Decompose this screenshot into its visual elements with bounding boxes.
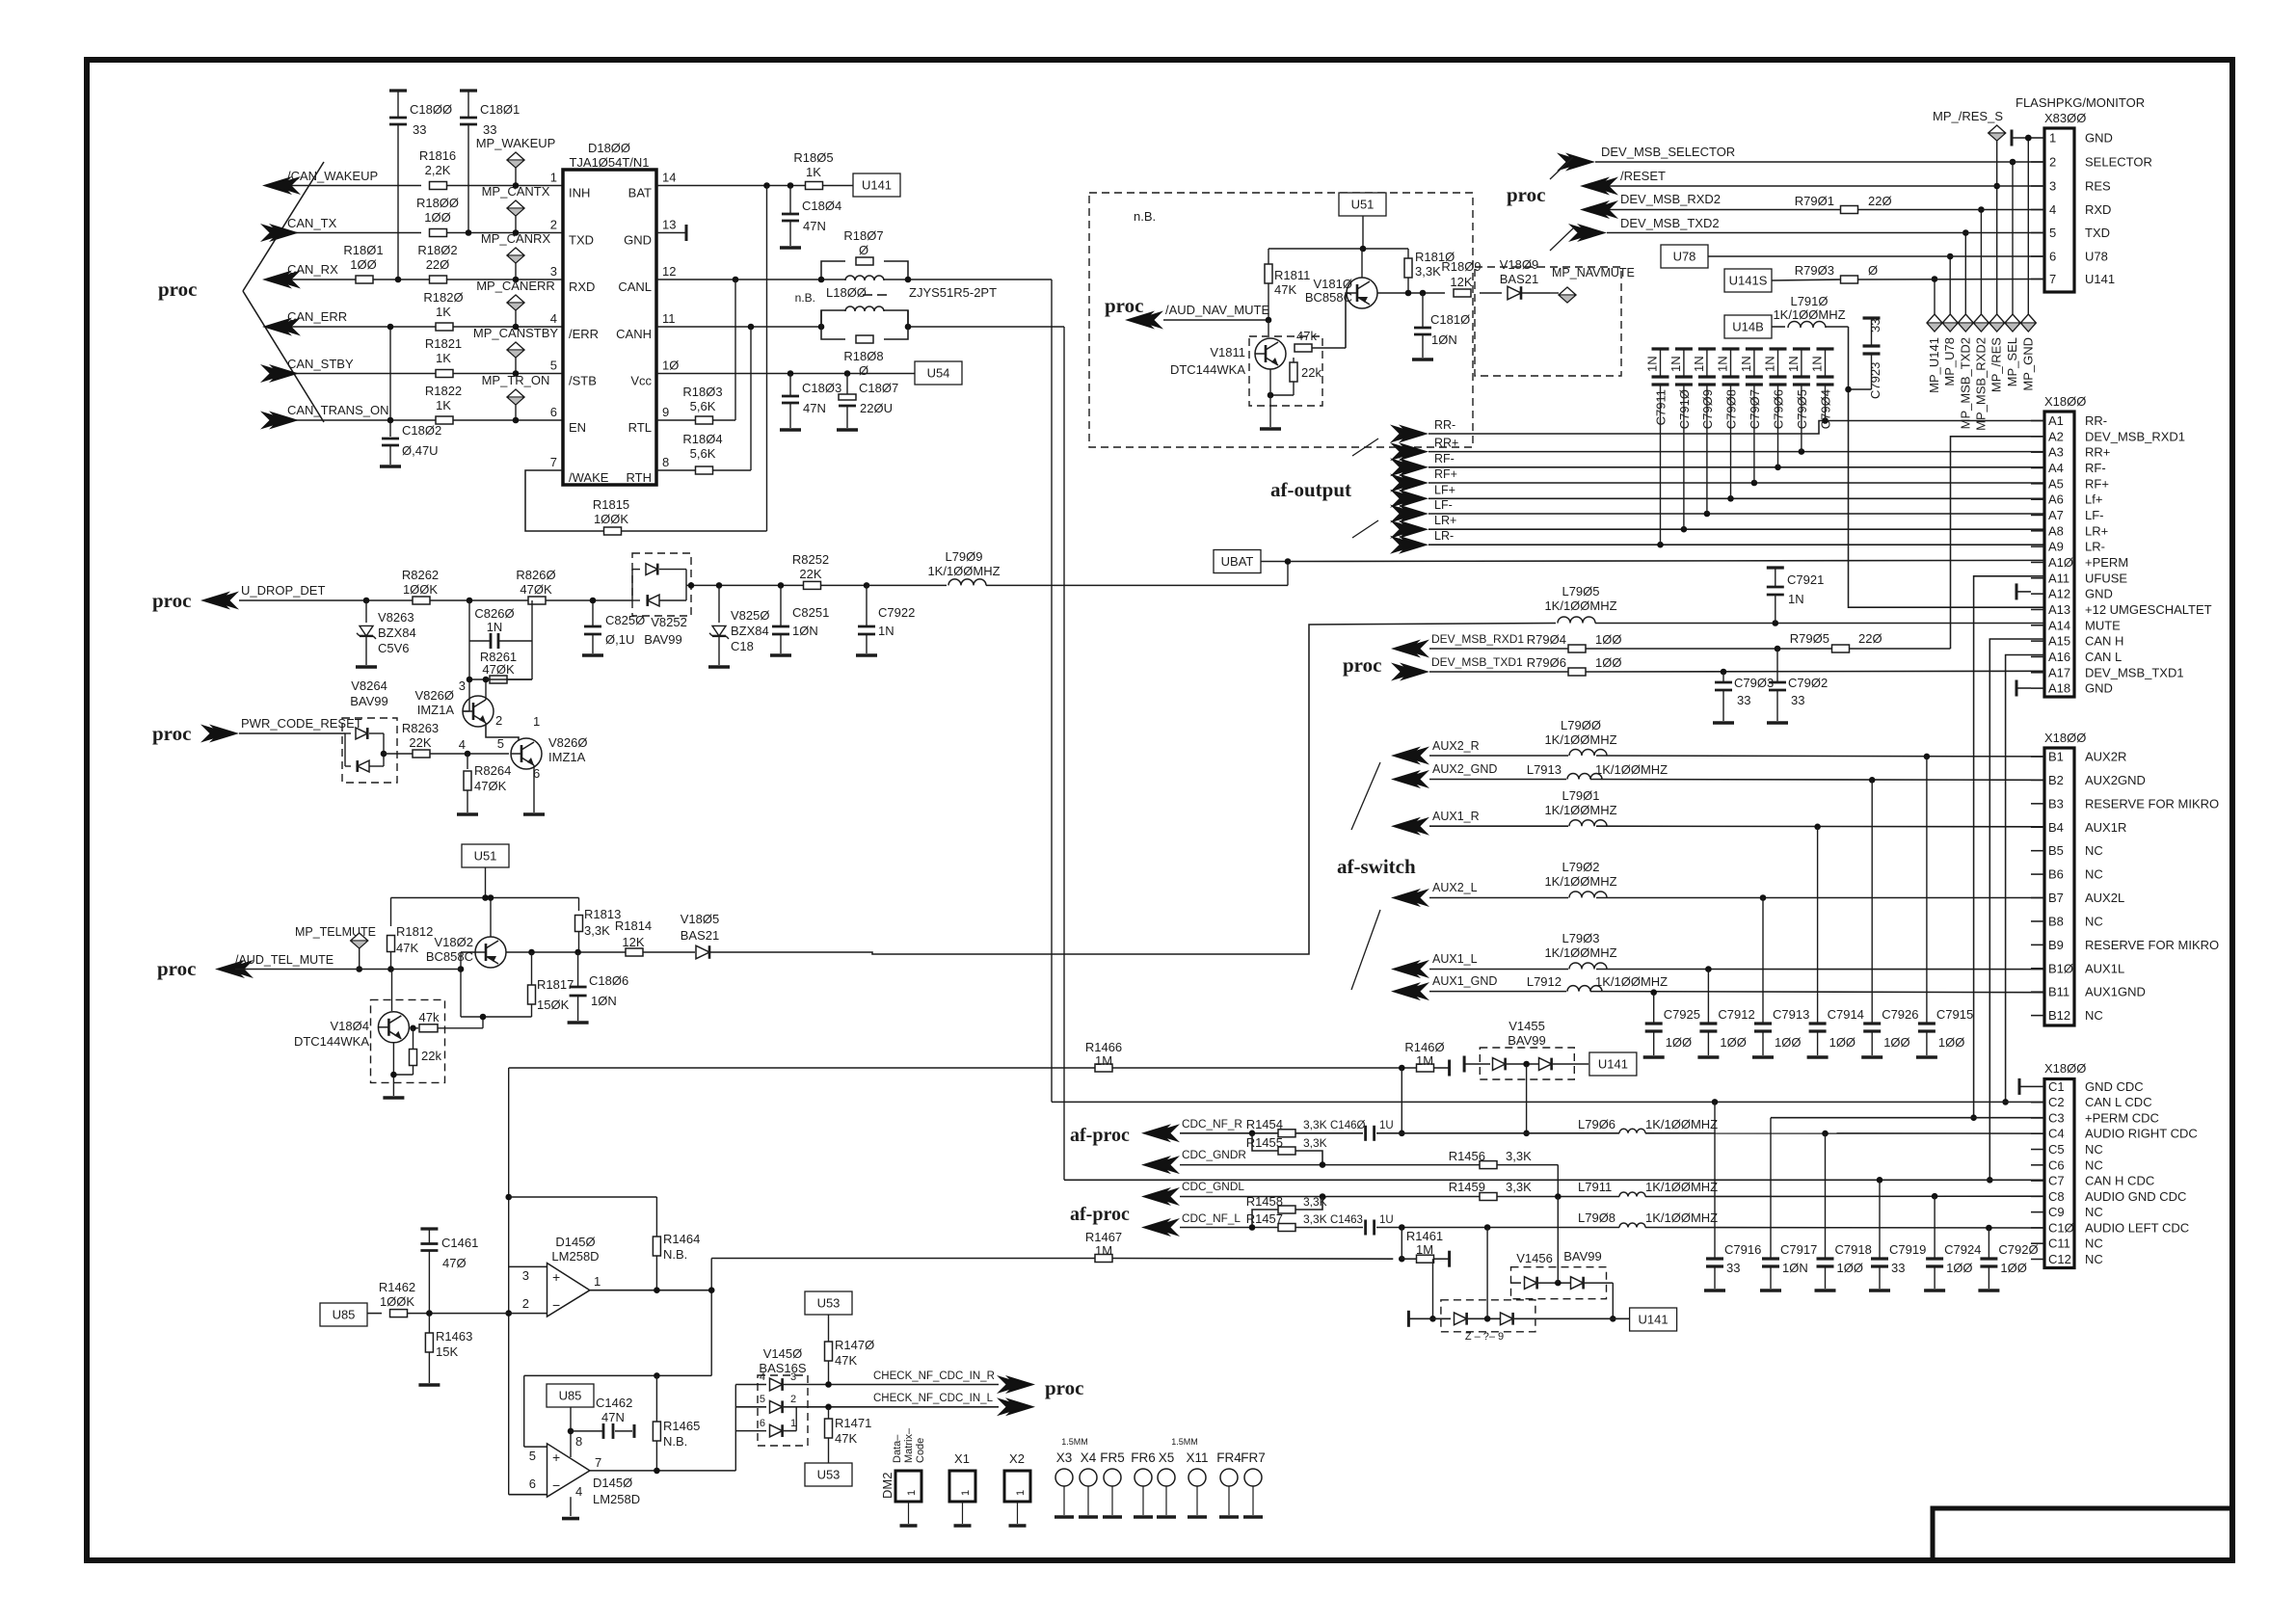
connector X1800 C [2031,1061,2198,1268]
svg-text:CDC_NF_L: CDC_NF_L [1182,1211,1241,1225]
svg-text:1ØØ: 1ØØ [1883,1035,1909,1050]
svg-text:V18Ø9: V18Ø9 [1500,257,1538,272]
svg-text:CAN L CDC: CAN L CDC [2085,1095,2152,1109]
svg-text:12K: 12K [622,935,644,949]
svg-text:CAN_RX: CAN_RX [287,262,338,277]
svg-text:C7914: C7914 [1828,1007,1864,1022]
capacitor C1806 [568,952,629,1023]
svg-text:V1456: V1456 [1516,1251,1553,1265]
svg-text:1.5MM: 1.5MM [1061,1437,1088,1447]
arrow DEV_MSB_TXD1 [1391,655,1523,681]
choke L1800 winding 2 [818,306,912,330]
svg-text:9: 9 [662,405,669,419]
svg-text:C4: C4 [2048,1127,2065,1141]
svg-text:R1463: R1463 [436,1329,472,1344]
proc label (CHECK) [1045,1376,1083,1399]
wire U51 rail [391,867,579,901]
resistor R1466 [1085,1040,1122,1072]
capacitor C1804 [780,186,841,249]
svg-text:U_DROP_DET: U_DROP_DET [241,583,325,598]
svg-text:Lf+: Lf+ [2085,492,2102,507]
arrow CAN_TRANS_ON [260,403,388,430]
svg-text:U141: U141 [1598,1057,1628,1072]
svg-text:V826Ø: V826Ø [548,735,587,750]
svg-text:22Ø: 22Ø [1858,631,1882,646]
capacitor C1461 [420,1229,478,1314]
svg-text:U141S: U141S [1729,274,1768,288]
capacitor C7911 [1645,349,1669,545]
wire V1804 collector [391,970,393,1012]
capacitor C1460 [1330,1120,1394,1141]
svg-text:R1457: R1457 [1246,1211,1283,1226]
svg-text:1: 1 [906,1490,918,1496]
wire /AUD_TEL_MUTE [235,966,461,972]
svg-text:1ØØK: 1ØØK [380,1294,414,1309]
svg-text:GND: GND [2085,131,2113,146]
svg-text:1ØØ: 1ØØ [1720,1035,1746,1050]
svg-text:RES: RES [2085,179,2111,194]
wire rail to +B [524,1375,547,1447]
svg-text:C7917: C7917 [1780,1242,1817,1257]
resistor R1461 [1402,1229,1449,1267]
op-amp D1450 A [522,1235,601,1317]
svg-text:1: 1 [550,171,557,185]
label 1.5MM (left) [1061,1437,1088,1447]
svg-text:1ØØ: 1ØØ [2000,1261,2026,1275]
svg-text:+12 UMGESCHALTET: +12 UMGESCHALTET [2085,602,2212,617]
wire U_DROP_DET [239,598,632,604]
svg-text:14: 14 [662,171,676,185]
wire opamp A +input [509,1265,547,1267]
svg-text:MP_GND: MP_GND [2020,337,2035,391]
wire U14B net to A13 [1849,327,2045,607]
wire pin3 RES [1603,185,2044,187]
svg-text:CHECK_NF_CDC_IN_R: CHECK_NF_CDC_IN_R [873,1370,995,1382]
svg-text:1ØØ: 1ØØ [1595,655,1621,670]
capacitor C79Ø9 [1692,349,1716,514]
wire pin5 TXD [1607,232,2044,234]
test point MP_MSB_RXD2 [1973,206,1989,431]
svg-text:MP_CANTX: MP_CANTX [482,184,550,199]
wire CHECK_NF_CDC_IN_R [825,1370,999,1388]
diode V8252 lower [632,585,687,647]
bracket slash (top right 1) [1550,157,1573,179]
wire af-output RF- [1428,465,2045,471]
svg-text:C5: C5 [2048,1142,2065,1157]
svg-text:Ø: Ø [859,363,868,378]
svg-text:L79ØØ: L79ØØ [1561,718,1601,732]
svg-text:R1814: R1814 [615,918,652,933]
svg-text:proc: proc [158,278,197,301]
wire V1802 base [458,952,532,1017]
resistor R7901 [1795,194,1892,214]
arrow AUX1_R [1391,810,1480,836]
svg-text:proc: proc [152,589,191,612]
svg-text:L79Ø9: L79Ø9 [945,549,982,564]
svg-text:R8264: R8264 [474,763,511,778]
dashed box V8252 [632,553,691,616]
svg-text:C79Ø2: C79Ø2 [1788,676,1828,690]
box U141S [1724,269,2044,292]
wire CHECK_NF_CDC_IN_L [825,1393,999,1410]
svg-text:R79Ø6: R79Ø6 [1527,655,1566,670]
svg-text:DTC144WKA: DTC144WKA [294,1034,369,1049]
capacitor C7914 [1807,827,1864,1057]
svg-text:D18ØØ: D18ØØ [588,141,630,155]
arrow CDC_NF_R [1141,1117,1242,1142]
bus slash (af-output top) [1352,439,1378,456]
wire after V8252 [686,582,804,589]
bus slash (af-switch 2) [1351,910,1380,990]
svg-text:6: 6 [2049,250,2056,264]
wire CDC_GNDL [1180,1193,2044,1200]
svg-text:CAN_ERR: CAN_ERR [287,309,347,324]
wire R1466 row [509,1065,1417,1072]
svg-text:X5: X5 [1159,1450,1175,1465]
wire to L7909 [867,584,947,586]
svg-text:L7912: L7912 [1527,974,1562,989]
capacitor C7918 [1815,1133,1872,1290]
svg-text:R8262: R8262 [402,568,439,582]
svg-text:1ØØ: 1ØØ [1775,1035,1801,1050]
svg-text:22k: 22k [421,1049,441,1063]
svg-text:1K: 1K [436,351,451,365]
resistor 47k (V1804) [410,1010,486,1032]
svg-text:U85: U85 [559,1389,582,1403]
svg-text:22K: 22K [409,735,431,750]
svg-text:DM2: DM2 [880,1473,894,1499]
wire RTH [656,327,751,470]
svg-text:RR-: RR- [1434,418,1455,432]
svg-text:RTL: RTL [628,420,652,435]
svg-text:BAS21: BAS21 [1500,272,1538,286]
svg-text:5: 5 [497,736,504,751]
resistor 22k (V1811) [1268,358,1322,398]
wire V1810 collector [1377,290,1445,297]
diode V1809 BAS21 [1500,257,1550,300]
svg-text:CAN L: CAN L [2085,650,2122,664]
resistor R1821 [425,336,462,378]
proc label (top right) [1507,183,1545,206]
svg-text:proc: proc [152,722,191,745]
wire C1463 bias [1401,1228,1402,1260]
svg-text:C79Ø7: C79Ø7 [1748,389,1762,429]
svg-text:1: 1 [594,1274,601,1289]
svg-text:AUX1L: AUX1L [2085,961,2124,975]
svg-text:RESERVE FOR MIKRO: RESERVE FOR MIKRO [2085,938,2219,952]
svg-text:AUX1_R: AUX1_R [1432,810,1480,823]
svg-text:C5V6: C5V6 [378,641,410,655]
capacitor C8260 [469,600,532,649]
svg-text:R1817: R1817 [537,977,574,992]
svg-text:6: 6 [760,1418,765,1429]
svg-text:L79Ø8: L79Ø8 [1578,1211,1615,1225]
capacitor C8250 [582,598,645,655]
connector X1800 A [2031,394,2212,697]
arrow CDC_NF_L [1141,1211,1241,1237]
diodes V1455 BAV99 [1464,1019,1589,1073]
wire af-output RF+ [1428,480,2045,487]
svg-text:33: 33 [413,122,426,137]
transistor V8260 (2) [497,714,588,781]
svg-text:1N: 1N [1692,356,1706,372]
diode V8264 b [345,733,387,772]
svg-text:LF+: LF+ [1434,483,1455,496]
svg-text:X4: X4 [1081,1450,1097,1465]
svg-text:X18ØØ: X18ØØ [2044,1061,2086,1076]
pad X11 [1186,1450,1208,1517]
capacitor C7926 [1861,780,1918,1057]
arrow U_DROP_DET [200,583,325,610]
svg-text:LR-: LR- [2085,540,2105,554]
svg-text:MP_CANERR: MP_CANERR [476,279,555,293]
arrow CAN_ERR [262,309,347,336]
svg-text:R8263: R8263 [402,721,439,735]
diode V1450 5-2 [735,1394,829,1413]
svg-text:47K: 47K [835,1431,857,1446]
svg-text:47K: 47K [396,941,418,955]
svg-text:C181Ø: C181Ø [1430,312,1470,327]
svg-text:B7: B7 [2048,891,2064,905]
dashed box V1811 [1249,336,1322,406]
wire BAT [656,182,853,189]
dashed box V1804 [371,999,445,1082]
svg-text:MP_U78: MP_U78 [1942,337,1957,386]
wire R1815 loop [525,186,767,532]
svg-text:IMZ1A: IMZ1A [548,750,586,764]
dashed box V1450 [758,1375,808,1446]
svg-text:D145Ø: D145Ø [593,1476,632,1490]
svg-text:1ØØ: 1ØØ [424,210,450,225]
svg-text:5: 5 [2049,226,2056,240]
svg-text:R18Ø8: R18Ø8 [843,349,883,363]
svg-text:C1461: C1461 [441,1236,478,1250]
svg-text:Code: Code [915,1438,926,1463]
svg-text:Ø: Ø [1868,263,1878,278]
wire CANH bus to C7 [1064,1177,2044,1184]
svg-text:NC: NC [2085,1008,2103,1023]
diode V1805 BAS21 [681,912,719,959]
svg-text:C11: C11 [2048,1237,2070,1251]
capacitor C1801 [460,91,520,236]
svg-text:af-switch: af-switch [1337,855,1416,878]
inductor L7901 [1544,788,1616,826]
pad X3 [1055,1450,1074,1517]
arrow af-output LF+ [1390,483,1455,508]
capacitor C7902 [1767,646,1828,723]
inductor L7908 [1578,1211,1718,1228]
svg-text:1K/1ØØMHZ: 1K/1ØØMHZ [1595,974,1668,989]
svg-text:B1Ø: B1Ø [2048,961,2073,975]
svg-text:BAV99: BAV99 [350,694,388,708]
svg-text:B3: B3 [2048,796,2064,811]
svg-text:NC: NC [2085,1157,2103,1172]
svg-text:AUX1GND: AUX1GND [2085,985,2146,999]
svg-text:C7918: C7918 [1835,1242,1872,1257]
svg-text:R1811: R1811 [1274,268,1310,282]
svg-text:R18Ø7: R18Ø7 [843,228,883,243]
connector X8300 [2031,111,2152,292]
svg-text:1K/1ØØMHZ: 1K/1ØØMHZ [1544,599,1616,613]
arrow af-output LR- [1390,529,1454,554]
svg-text:C79Ø8: C79Ø8 [1724,389,1739,429]
arrow af-output RF+ [1390,467,1457,492]
resistor R1811 [1265,249,1310,320]
svg-text:3: 3 [522,1268,529,1283]
svg-text:1K/1ØØMHZ: 1K/1ØØMHZ [1544,732,1616,747]
wire CDC_NF_R [1180,1131,2044,1137]
svg-text:DEV_MSB_RXD2: DEV_MSB_RXD2 [1620,192,1721,206]
svg-text:33: 33 [1726,1261,1740,1275]
arrow /CAN_WAKEUP [262,169,378,195]
resistor R1810 [1404,249,1455,293]
resistor R7903 [1795,263,1878,283]
svg-text:R18Ø2: R18Ø2 [417,243,457,257]
resistor R1470 [825,1338,875,1385]
svg-text:C6: C6 [2048,1157,2065,1172]
svg-text:C18Ø6: C18Ø6 [589,973,628,988]
resistor R8260 [516,568,555,604]
svg-text:47K: 47K [1274,282,1296,297]
svg-text:R182Ø: R182Ø [423,290,463,305]
wire af-output LF+ [1428,495,2045,502]
svg-text:FLASHPKG/MONITOR: FLASHPKG/MONITOR [2016,95,2145,110]
bracket slash (top right 2) [1550,228,1573,251]
svg-text:C1Ø: C1Ø [2048,1220,2074,1235]
svg-text:AUDIO GND CDC: AUDIO GND CDC [2085,1189,2186,1204]
svg-text:7: 7 [550,455,557,469]
svg-text:proc: proc [157,957,196,980]
svg-text:U85: U85 [333,1308,356,1322]
capacitor C7915 [1916,757,1973,1057]
wire V1456 right down [1610,1283,1616,1322]
svg-text:22Ø: 22Ø [426,257,450,272]
wire opamp B pin4 gnd [562,1484,582,1519]
svg-text:NC: NC [2085,1205,2103,1219]
label DM2 [880,1473,894,1499]
svg-text:1N: 1N [1788,592,1804,606]
svg-text:BAV99: BAV99 [644,632,682,647]
resistor R1820 [423,290,463,331]
resistor R1471 [825,1407,872,1463]
wire af-output LR- [1428,542,2045,548]
resistor R7904 [1527,632,1622,652]
wire A15 CAN H to C7 [1987,639,2044,1184]
svg-text:FR5: FR5 [1100,1450,1125,1465]
svg-text:V826Ø: V826Ø [415,688,454,703]
svg-text:DEV_MSB_SELECTOR: DEV_MSB_SELECTOR [1601,145,1735,159]
svg-text:A8: A8 [2048,523,2064,538]
svg-text:U51: U51 [474,849,497,864]
svg-text:15ØK: 15ØK [537,998,570,1012]
svg-text:U14B: U14B [1732,320,1764,334]
svg-text:R147Ø: R147Ø [835,1338,874,1352]
svg-text:1K/1ØØMHZ: 1K/1ØØMHZ [1773,307,1845,322]
transistor V1810 [1305,249,1377,308]
resistor R1816 [419,148,456,190]
svg-text:1: 1 [533,714,540,729]
svg-text:C7925: C7925 [1664,1007,1700,1022]
wire U85 pin8 [568,1407,583,1457]
resistor R1813 [575,898,622,953]
svg-text:A11: A11 [2048,571,2069,585]
arrow AUX2_L [1391,881,1478,907]
svg-text:GND: GND [2085,587,2113,601]
svg-text:C79Ø4: C79Ø4 [1819,389,1833,429]
capacitor C1810 [1412,293,1470,359]
svg-text:6: 6 [550,405,557,419]
svg-text:CAN H: CAN H [2085,634,2123,649]
svg-text:1K/1ØØMHZ: 1K/1ØØMHZ [1544,874,1616,889]
svg-text:+: + [552,1450,560,1465]
arrow af-output LR+ [1390,514,1456,539]
svg-text:A14: A14 [2048,618,2070,632]
svg-text:1K/1ØØMHZ: 1K/1ØØMHZ [1645,1211,1718,1225]
svg-text:X3: X3 [1056,1450,1073,1465]
svg-text:NC: NC [2085,1142,2103,1157]
resistor R8263 [402,721,509,758]
svg-text:B5: B5 [2048,843,2064,858]
svg-text:C79Ø9: C79Ø9 [1700,389,1715,429]
svg-text:1: 1 [2049,131,2056,146]
svg-text:LF-: LF- [1434,498,1453,512]
test point MP_WAKEUP [476,136,556,189]
svg-text:AUDIO LEFT CDC: AUDIO LEFT CDC [2085,1220,2189,1235]
svg-text:AUX1R: AUX1R [2085,820,2126,835]
svg-text:1K: 1K [436,305,451,319]
wire af-output LR+ [1428,526,2045,533]
svg-text:B1: B1 [2048,750,2064,764]
svg-text:2: 2 [790,1394,796,1405]
arrow AUX1_L [1391,952,1478,978]
svg-text:B8: B8 [2048,914,2064,928]
svg-text:CAN_TRANS_ON: CAN_TRANS_ON [287,403,388,417]
svg-text:BAS21: BAS21 [681,928,719,943]
svg-text:LR-: LR- [1434,529,1454,543]
dashed box V8264 [342,718,397,783]
resistor R8262 [402,568,439,604]
svg-text:1: 1 [960,1490,972,1496]
resistor R1802 [417,243,457,283]
svg-text:1K: 1K [436,398,451,412]
svg-text:FR7: FR7 [1241,1450,1266,1465]
wire base V1811 [1268,320,1269,335]
resistor R1455 [1246,1133,1327,1165]
test point MP_TR_ON [482,373,550,423]
svg-text:U141: U141 [862,178,892,193]
capacitor C7925 [1643,993,1700,1057]
dashed box diode pair (lower) [1441,1300,1535,1332]
proc label (U_DROP_DET) [152,589,191,612]
svg-text:L79Ø2: L79Ø2 [1562,860,1599,874]
svg-text:2,2K: 2,2K [425,163,451,177]
svg-text:C826Ø: C826Ø [474,606,514,621]
svg-text:1U: 1U [1379,1120,1394,1131]
svg-text:R1467: R1467 [1085,1230,1122,1244]
svg-text:R826Ø: R826Ø [516,568,555,582]
svg-text:NC: NC [2085,1237,2103,1251]
svg-text:UBAT: UBAT [1221,554,1254,569]
wire V8260-1 base [463,677,472,711]
wire V1456 center [1557,1197,1559,1284]
svg-text:1N: 1N [1810,356,1825,372]
svg-text:BZX84: BZX84 [731,624,769,638]
svg-text:2: 2 [550,218,557,232]
diode V8252 upper [632,564,686,600]
svg-text:1ØØ: 1ØØ [1595,632,1621,647]
resistor R1457 [1246,1211,1327,1232]
box U141 (V1455) [1589,1052,1637,1076]
